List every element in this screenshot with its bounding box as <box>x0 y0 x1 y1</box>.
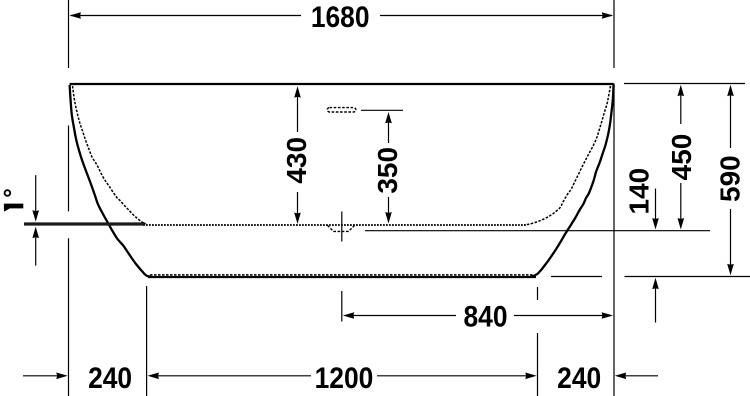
svg-text:1680: 1680 <box>311 0 370 33</box>
svg-text:1200: 1200 <box>315 360 374 394</box>
sump level extension line right <box>365 230 710 232</box>
svg-text:450: 450 <box>666 134 697 181</box>
extension line right x614 <box>613 84 615 396</box>
svg-text:240: 240 <box>557 360 601 394</box>
label 1deg degree ring <box>5 190 11 196</box>
tub bottom seam dashed <box>150 274 534 276</box>
dim 240 right outside arrow <box>615 373 626 380</box>
drain recess dashed <box>328 225 355 231</box>
dim 1680 arrow right <box>602 12 613 19</box>
floor line right segment 2 <box>625 276 750 278</box>
svg-text:350: 350 <box>372 147 403 194</box>
tub outer wall right <box>531 85 614 277</box>
drain centerline <box>341 212 343 242</box>
dim 1680 arrow left <box>70 12 81 19</box>
overflow dashed capsule <box>327 108 356 112</box>
drain extension line below tub <box>341 291 343 322</box>
extension line below tub bottom right corner <box>537 287 539 300</box>
rim level extension line right <box>624 83 745 85</box>
dim 350 lower arrow <box>388 197 390 214</box>
dim 1200 right arrow <box>525 373 536 380</box>
tub inner wall right dashed <box>525 86 611 225</box>
svg-text:840: 840 <box>463 299 507 333</box>
floor line right segment 1 <box>551 276 602 278</box>
dim 840 arrow left <box>343 312 354 319</box>
svg-text:590: 590 <box>714 155 745 202</box>
dim 140 down arrow <box>655 189 657 221</box>
tub outer bottom <box>148 276 536 278</box>
dim 1200 line right segment <box>377 375 526 377</box>
svg-text:430: 430 <box>281 137 312 184</box>
dim 450 up arrow <box>680 95 682 125</box>
dim 1200 left arrow <box>148 373 159 380</box>
dim 590 down arrow <box>730 209 732 266</box>
tub interior bottom dotted <box>143 224 527 226</box>
overflow extension line right <box>361 109 403 111</box>
dim 430 lower arrow <box>297 192 299 215</box>
dim 1680 extension line left <box>68 0 70 68</box>
dim 840 arrow right <box>602 312 613 319</box>
svg-text:240: 240 <box>88 360 132 394</box>
extension line below tub bottom left corner <box>146 286 148 396</box>
left extension line lower part <box>68 126 70 212</box>
dim 1deg lower arrow <box>35 236 37 266</box>
dim 1680 extension line right <box>613 0 615 68</box>
label 1deg digit one <box>4 204 23 212</box>
dim 450 down arrow <box>680 183 682 220</box>
dim 240 left outside arrow <box>23 375 58 377</box>
dim 1deg upper arrow <box>35 175 37 212</box>
dim 1680 line <box>71 15 302 17</box>
tub rim <box>70 83 614 85</box>
tub inner wall left dashed <box>73 86 147 224</box>
dim 350 upper arrow <box>388 122 390 144</box>
svg-text:140: 140 <box>623 168 654 215</box>
dim 140 up arrow below floor <box>655 287 657 323</box>
dim 840 line left segment <box>352 315 456 317</box>
slope line 1deg thick <box>24 222 145 225</box>
dim 430 upper arrow <box>297 96 299 132</box>
dim 590 up arrow <box>730 95 732 149</box>
dim 840 line right segment <box>514 315 611 317</box>
tub outer wall left <box>70 85 151 277</box>
